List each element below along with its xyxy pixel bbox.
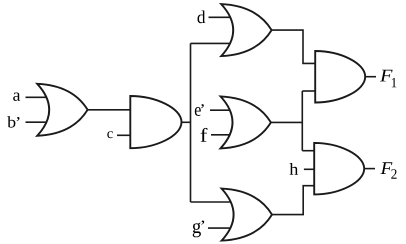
wire input d — [209, 16, 233, 18]
label f — [201, 128, 208, 142]
wire bus B2 to AND1 bottom input — [302, 90, 315, 92]
label apostrophe of g' — [201, 220, 204, 224]
wire bus B1 to OR4 top input — [191, 201, 233, 203]
wire OR4 output to AND2 bottom input — [271, 186, 314, 215]
wire input a — [26, 96, 47, 98]
wire AND-c output to bus B1 — [180, 121, 191, 123]
wire AND2 output F2 — [364, 168, 375, 170]
wire OR1 output to AND-c input — [86, 109, 131, 111]
label F of F1 — [380, 70, 393, 82]
wire input c — [117, 134, 131, 136]
label a — [13, 92, 20, 100]
wire OR2 output to AND1 top input — [271, 30, 316, 63]
wire input f — [211, 134, 231, 136]
label apostrophe of e' — [201, 104, 204, 108]
label 2 of F2 — [391, 169, 396, 179]
wire bus B2 to AND2 top input — [302, 150, 314, 152]
label c — [107, 131, 112, 138]
label g of g' — [193, 222, 201, 237]
OR gate G1 inputs a,b' — [37, 84, 87, 136]
wire AND1 output F1 — [365, 76, 376, 78]
wire input e' — [210, 109, 231, 111]
OR gate G5 input g' — [222, 189, 272, 241]
label F of F2 — [380, 162, 392, 174]
label 1 of F1 — [392, 78, 397, 87]
wire input h — [304, 168, 314, 170]
AND gate G7 input h output F2 — [314, 143, 364, 195]
label apostrophe of b' — [17, 117, 20, 121]
wire OR3 output to bus B2 — [270, 121, 302, 123]
label h — [290, 163, 299, 175]
OR gate G4 inputs e',f — [221, 96, 271, 148]
label d — [197, 11, 205, 24]
label e of e' — [195, 107, 201, 116]
wire bus B1 vertical — [190, 43, 192, 202]
wire input g' — [208, 227, 232, 229]
wire bus B1 to OR2 lower input — [191, 42, 233, 44]
OR gate G3 input d — [221, 4, 271, 56]
label b of b' — [7, 116, 15, 128]
wire input b' — [26, 121, 47, 123]
AND gate G6 output F1 — [315, 51, 365, 103]
AND gate G2 input c — [130, 96, 181, 148]
wire bus B2 vertical — [301, 91, 303, 151]
